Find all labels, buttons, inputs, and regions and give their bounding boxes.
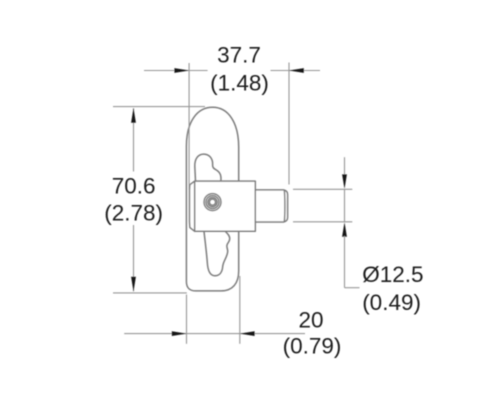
dim 20 right extension line — [239, 276, 241, 344]
dim diameter 12.5 top extension line — [293, 188, 352, 190]
svg-text:70.6: 70.6 — [112, 174, 156, 199]
dim 70.6 top extension line — [113, 106, 205, 108]
backplate body outline — [186, 107, 238, 291]
dim 70.6 top arrow — [131, 108, 136, 123]
keyhole upper lobe — [195, 154, 221, 181]
shaft end chamfer line — [283, 190, 286, 222]
dim diameter 12.5 bottom extension line — [293, 221, 352, 223]
dim 70.6 bottom extension line — [113, 292, 187, 294]
dim 37.7 dimension line right segment — [271, 70, 321, 72]
dim 20 left extension line — [186, 295, 188, 344]
dim 20 left arrow — [172, 331, 187, 336]
dim 20 dimension line — [124, 333, 305, 335]
screw outer circle — [204, 194, 221, 211]
dim diameter 12.5 upper leader segment — [344, 157, 346, 175]
dim diameter 12.5 lower arrow — [342, 222, 347, 237]
svg-text:(1.48): (1.48) — [210, 70, 269, 95]
keyhole lower slot — [204, 231, 230, 275]
dim 37.7 right extension line — [288, 63, 290, 185]
svg-text:(2.78): (2.78) — [104, 201, 163, 226]
svg-text:(0.79): (0.79) — [283, 334, 342, 359]
dim 37.7 left extension line — [188, 63, 190, 190]
dim 37.7 dimension line left segment — [144, 70, 208, 72]
dim 70.6 dimension line upper segment — [133, 108, 135, 171]
dim diameter 12.5 upper arrow — [342, 174, 347, 189]
dim diameter 12.5 middle segment — [344, 189, 346, 222]
screw center hole — [210, 199, 216, 205]
block front face — [195, 181, 256, 231]
svg-text:37.7: 37.7 — [217, 43, 261, 68]
dim 37.7 right arrow — [289, 68, 304, 73]
screw inner circle — [208, 198, 217, 207]
dim diameter 12.5 lower leader segment — [344, 236, 346, 288]
dim 70.6 bottom arrow — [131, 277, 136, 292]
svg-text:Ø12.5: Ø12.5 — [362, 262, 423, 287]
svg-text:20: 20 — [298, 307, 323, 332]
dim 37.7 left arrow — [174, 68, 189, 73]
svg-text:(0.49): (0.49) — [362, 290, 421, 315]
screw middle circle — [206, 196, 219, 209]
shaft outline — [255, 190, 287, 222]
block left side face — [190, 181, 195, 231]
dim 70.6 dimension line lower segment — [133, 225, 135, 291]
dim 20 right arrow — [240, 331, 255, 336]
dim diameter 12.5 leader foot — [345, 287, 360, 289]
